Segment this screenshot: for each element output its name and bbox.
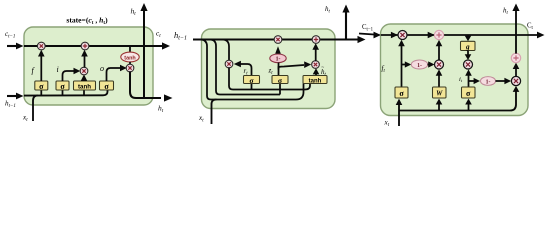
wire: spur to sigma f — [40, 90, 42, 96]
multiply gate (forget, on c-line) — [398, 31, 407, 40]
one-minus oval — [270, 54, 286, 63]
wire: bottom line arrow into h multiply — [513, 86, 520, 92]
tanh oval (output activation) — [121, 52, 139, 62]
svg-text:tanh: tanh — [124, 55, 135, 61]
sigma box (update gate) — [272, 76, 288, 85]
multiply gate (input) — [80, 67, 88, 75]
multiply gate (output) — [464, 60, 473, 69]
wire: spur up into W box — [436, 99, 443, 111]
svg-text:xt: xt — [384, 119, 390, 128]
wire: f riser (sigma f up to forget multiply) — [398, 40, 405, 87]
add gate (h path) — [511, 53, 520, 62]
add gate on h-line — [312, 36, 320, 44]
wire: h_t riser (outside box) — [342, 5, 349, 40]
wire: c-line — [381, 34, 537, 36]
wire: sigma i output into input multiply — [63, 68, 81, 81]
sigma box (input gate) — [462, 87, 476, 98]
svg-text:ht: ht — [503, 7, 509, 16]
wire: h_t exit arrowhead (bottom right) — [164, 94, 173, 101]
wire: c_{t-1} entry — [359, 32, 381, 39]
sigma box (forget gate) — [35, 81, 48, 91]
wire: h_t top arrowhead — [140, 3, 147, 11]
sigma box (input gate) — [56, 81, 69, 91]
wire: x_t input riser — [33, 96, 38, 122]
multiply gate (output) — [126, 64, 134, 72]
svg-text:g: g — [465, 43, 470, 51]
wire: one-minus into candidate multiply — [428, 61, 435, 67]
svg-text:tanh: tanh — [309, 78, 322, 84]
wire: sigma r output into reset multiply — [234, 61, 252, 76]
multiply gate (candidate x (1-f)) — [435, 60, 444, 69]
wire: c_t output arrowhead — [162, 42, 170, 49]
wire: h branch down into reset multiply — [222, 40, 229, 61]
svg-text:~: ~ — [321, 65, 324, 71]
wire: W box up into candidate multiply — [436, 69, 443, 87]
svg-text:σ: σ — [39, 82, 44, 91]
svg-text:1-: 1- — [417, 63, 422, 69]
svg-text:σ: σ — [466, 89, 471, 98]
wire: sigma f output up to forget multiply — [38, 50, 45, 81]
add gate (on c-line) — [434, 30, 443, 39]
wire: g output down into output multiply — [465, 51, 472, 61]
wire: sigma o output into output multiply — [107, 65, 127, 81]
wire: c-line arrowhead into add gate — [428, 32, 435, 39]
sigma box (forget gate) — [395, 87, 408, 98]
svg-text:i: i — [57, 65, 59, 74]
wire: f branch right into one-minus — [402, 61, 412, 67]
svg-text:1-: 1- — [276, 57, 281, 63]
sigma box (reset gate) — [244, 76, 260, 85]
wire: h multiply up into h add — [513, 63, 520, 77]
wire: gate input line (h,x) — [24, 90, 108, 96]
wire: tanh box output up into input multiply — [81, 74, 88, 81]
add gate on c-line — [81, 42, 89, 50]
wire: bottom input line — [399, 90, 516, 111]
svg-text:Ct: Ct — [527, 23, 534, 31]
wire: one-minus into h multiply — [496, 78, 512, 84]
multiply gate (forget) on c-line — [37, 42, 45, 50]
wire: x_t riser into sigma f — [396, 99, 403, 126]
svg-text:ht−1: ht−1 — [5, 100, 16, 109]
wire: h branch down to x-line — [202, 40, 304, 100]
wire: c_t exit arrowhead — [537, 32, 545, 39]
node htilde label — [321, 65, 327, 78]
tanh box (candidate) — [303, 76, 327, 85]
wire: reset multiply output down and right into tanh box — [229, 67, 310, 89]
svg-text:ct−1: ct−1 — [5, 30, 15, 39]
wire: c-line — [24, 45, 162, 47]
wire: z riser from sigma z to oval — [278, 63, 280, 76]
svg-text:ct: ct — [156, 30, 161, 39]
svg-text:xt: xt — [22, 114, 28, 123]
one-minus oval (1-f) — [411, 60, 427, 69]
wire: tanh oval to output multiply — [129, 62, 131, 65]
wire: input multiply up to add gate — [81, 50, 88, 68]
svg-text:o: o — [100, 64, 104, 73]
cell body (rounded green box) — [202, 29, 336, 109]
wire: x_t input riser — [212, 100, 217, 125]
wire: spur up into sigma i — [465, 99, 472, 111]
multiply gate (h path) — [511, 76, 520, 85]
wire: h_t riser to top — [143, 9, 145, 98]
wire: i branch right into one-minus — [469, 78, 481, 84]
cell body (rounded green box) — [24, 27, 153, 105]
wire: candidate multiply up into add gate — [312, 43, 319, 61]
svg-text:state=(ct , ht): state=(ct , ht) — [66, 16, 108, 27]
one-minus oval (1-i) — [481, 77, 496, 86]
wire: spur up into sigma z — [279, 84, 281, 95]
cell body (rounded green box) — [381, 24, 529, 116]
sigma box (output gate) — [100, 81, 114, 91]
wire: h branch down to gate-input line — [210, 40, 281, 95]
wire: branch from c-line down to tanh oval — [129, 46, 131, 52]
wire: spur to tanh box — [83, 90, 85, 96]
svg-text:σ: σ — [60, 82, 65, 91]
multiply gate (1-z on h-line) — [274, 36, 282, 44]
wire: spur up into sigma r — [251, 84, 253, 90]
W box (candidate weights) — [433, 87, 447, 98]
wire: candidate multiply up into add gate — [436, 40, 443, 60]
wire: c-line inner arrowhead before forget multiply — [391, 32, 398, 39]
wire: one-minus up into multiply — [275, 46, 281, 53]
tanh box (candidate) — [74, 81, 96, 90]
svg-text:1-: 1- — [486, 79, 491, 85]
svg-text:ht: ht — [131, 7, 137, 17]
svg-text:ht: ht — [158, 104, 164, 114]
wire: h riser to top h_t — [512, 4, 519, 54]
wire: output multiply down and right to h_t exit — [130, 71, 161, 98]
svg-text:xt: xt — [198, 114, 204, 123]
wire: c_{t-1} input arrow — [7, 43, 24, 50]
wire: z branch right into candidate multiply — [279, 61, 312, 69]
multiply gate (reset) — [225, 60, 233, 68]
svg-text:tanh: tanh — [78, 83, 91, 90]
svg-text:σ: σ — [399, 89, 404, 98]
wire: h_{t-1} input arrow — [7, 93, 24, 100]
wire: h-line — [193, 39, 335, 41]
svg-text:W: W — [436, 90, 443, 98]
svg-text:ht−1: ht−1 — [174, 30, 187, 42]
g box (output activation) — [461, 41, 476, 51]
wire: h exit line and arrowhead — [335, 36, 366, 43]
svg-text:Ct−1: Ct−1 — [362, 24, 374, 32]
wire: c-line branch down into g box — [465, 35, 472, 41]
svg-text:ht: ht — [325, 5, 331, 14]
multiply gate (z * htilde) — [312, 61, 320, 69]
wire: spur to sigma i — [62, 90, 64, 96]
wire: tanh output up into candidate multiply — [313, 68, 320, 75]
svg-text:σ: σ — [104, 82, 109, 91]
wire: i riser from sigma i up into output multiply — [465, 69, 472, 87]
